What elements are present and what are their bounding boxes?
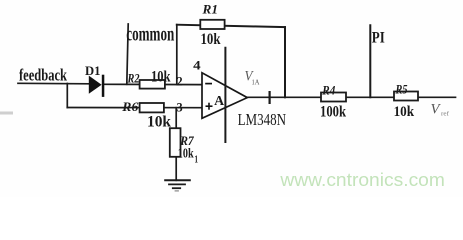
svg-text:A: A [214,93,224,108]
svg-text:D1: D1 [85,63,101,78]
svg-text:1: 1 [195,155,199,166]
svg-text:4: 4 [193,57,201,72]
svg-text:100k: 100k [320,103,346,120]
svg-text:10k: 10k [178,145,194,160]
svg-text:V: V [431,102,442,118]
svg-text:R6: R6 [121,99,139,114]
svg-text:feedback: feedback [19,66,68,85]
svg-text:R2: R2 [127,70,140,85]
svg-text:R4: R4 [321,83,335,97]
svg-text:1A: 1A [252,78,260,86]
svg-text:3: 3 [177,99,183,114]
svg-text:10k: 10k [201,31,221,48]
svg-text:common: common [126,24,174,46]
svg-text:ref: ref [441,111,450,118]
svg-text:10k: 10k [394,104,415,120]
svg-text:R1: R1 [201,2,218,17]
svg-text:R5: R5 [395,82,408,96]
svg-text:2: 2 [177,73,183,88]
svg-text:LM348N: LM348N [238,110,287,129]
svg-text:10k: 10k [151,68,171,85]
svg-text:10k: 10k [147,114,171,131]
svg-text:www.cntronics.com: www.cntronics.com [279,170,445,190]
svg-text:PI: PI [372,29,385,46]
